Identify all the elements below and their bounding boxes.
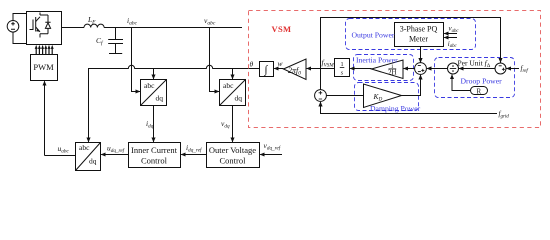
svg-text:Control: Control — [220, 156, 247, 166]
label 1/s fraction — [340, 61, 345, 76]
sign minus top of S1 — [418, 65, 421, 67]
svg-text:1: 1 — [340, 61, 343, 68]
svg-text:abc: abc — [223, 81, 234, 90]
wire u_abc from dq/abc to corner — [45, 155, 76, 157]
transistor Q1 (IGBT with freewheel diode) — [30, 13, 51, 38]
wire theta drop into abc/dq box2 — [232, 69, 234, 80]
inverter box — [27, 12, 62, 45]
divider junction (per unit) — [448, 63, 459, 74]
svg-text:Control: Control — [141, 156, 168, 166]
wire fvsm into S3 top — [320, 69, 322, 90]
svg-text:R: R — [476, 87, 481, 95]
damping gain KD triangle — [364, 84, 402, 108]
inductor LF — [84, 24, 104, 27]
summing junction S2 (f_ref - f_vsm) — [495, 63, 506, 74]
capacitor Cf — [108, 28, 123, 54]
svg-text:Meter: Meter — [409, 35, 428, 44]
svg-text:vabc: vabc — [204, 16, 216, 27]
svg-text:vabc: vabc — [449, 25, 460, 34]
wire S3 to damping gain — [326, 95, 363, 97]
wire dc source bottom to inverter — [13, 32, 27, 43]
1/s integrator block — [335, 59, 350, 77]
abc/dq transform box2 (voltage) — [220, 80, 246, 106]
damping power boundary (blue dashed) — [355, 83, 419, 111]
svg-text:idq_ref: idq_ref — [186, 143, 203, 153]
svg-text:2πf0: 2πf0 — [288, 66, 301, 77]
svg-text:fVSM: fVSM — [322, 58, 335, 69]
wire frequency error into divider — [459, 68, 495, 70]
svg-text:Droop Power: Droop Power — [461, 77, 503, 86]
summing junction S1 (power error) — [415, 63, 427, 75]
svg-text:VSM: VSM — [272, 24, 292, 34]
wire dc source top to inverter — [13, 14, 27, 21]
svg-text:Damping Power: Damping Power — [370, 104, 421, 113]
wire v_abc tap down with hop over theta rail — [210, 28, 220, 92]
wire R to divider — [452, 75, 470, 91]
svg-text:Cf: Cf — [96, 36, 104, 47]
svg-text:w: w — [278, 59, 283, 68]
integrator block — [260, 62, 274, 77]
per-unit / droop boundary (blue dashed) — [435, 58, 515, 98]
sign minus bottom of S1 — [418, 71, 421, 73]
sign minus bottom of S3 — [319, 98, 322, 100]
outer voltage control box — [207, 143, 260, 168]
svg-text:vdq_ref: vdq_ref — [264, 141, 282, 151]
svg-text:∫: ∫ — [263, 64, 268, 76]
wire damping output up into S1 — [402, 75, 421, 96]
svg-text:vdq: vdq — [221, 119, 230, 129]
wire f_grid into S3 bottom — [321, 102, 498, 114]
3-phase PQ meter box — [395, 23, 444, 47]
svg-text:θ: θ — [250, 60, 254, 69]
wire fvsm top route to S2 — [321, 18, 501, 69]
wire fvsm into 2pif0 gain — [307, 68, 321, 70]
gate drive bus (PWM to inverter) — [35, 45, 54, 55]
VSM boundary (red dashed) — [249, 11, 541, 128]
svg-text:PWM: PWM — [33, 62, 54, 72]
wire u_dq_ref ICC to dq/abc — [101, 154, 128, 156]
wire u_abc up into PWM — [44, 81, 46, 155]
svg-text:KD: KD — [373, 92, 383, 102]
wire main line continues — [104, 27, 242, 29]
sign plus right of S1 — [421, 69, 424, 72]
wire fvsm from 1/s output — [321, 68, 335, 70]
divide symbol — [450, 68, 456, 70]
svg-text:3-Phase PQ: 3-Phase PQ — [400, 25, 438, 34]
wire f_ref into S2 — [507, 68, 520, 70]
wire v_dq_ref into OVC — [260, 154, 282, 156]
svg-text:iabc: iabc — [127, 16, 138, 27]
wire from inertia gain into 1/s — [350, 68, 371, 70]
inner current control box — [129, 143, 181, 168]
wire i_abc stub into PQ meter — [444, 37, 457, 39]
svg-text:uabc: uabc — [58, 144, 70, 154]
svg-text:fgrid: fgrid — [499, 110, 510, 120]
wire i_dq_ref OVC to ICC — [181, 154, 206, 156]
wire i_abc tap down with hop over theta rail — [132, 28, 141, 92]
sign minus top of S2 — [499, 65, 502, 67]
wire v_dq down to outer voltage control — [232, 106, 234, 143]
svg-text:abc: abc — [144, 81, 155, 90]
svg-text:idq: idq — [146, 119, 154, 129]
theta rail from integrator to transforms — [89, 65, 260, 142]
wire theta drop into abc/dq box1 — [153, 69, 155, 80]
svg-text:dq: dq — [89, 157, 97, 166]
svg-text:abc: abc — [79, 143, 90, 152]
output power boundary (blue dashed) — [346, 19, 476, 50]
label 1/2H fraction — [388, 65, 397, 76]
svg-text:2H: 2H — [388, 68, 397, 76]
wire sum to inertia gain — [404, 68, 415, 70]
svg-text:Inertia Power: Inertia Power — [356, 56, 398, 65]
sign plus right of S2 — [502, 68, 505, 71]
svg-text:dq: dq — [235, 94, 243, 103]
gain 2*pi*f0 triangle — [284, 59, 307, 80]
abc/dq transform box1 (current) — [141, 80, 167, 106]
svg-text:udq_ref: udq_ref — [107, 144, 126, 154]
inertia gain 1/2H triangle — [372, 60, 404, 79]
dq/abc transform box (bottom) — [76, 143, 101, 171]
sign plus top of S3 — [319, 91, 323, 95]
svg-text:Output Power: Output Power — [352, 31, 395, 40]
wire PQ meter output into S1 — [420, 47, 422, 63]
wire w into integrator — [274, 68, 283, 70]
wire i_dq down to inner current control — [153, 106, 155, 143]
svg-text:dq: dq — [156, 94, 164, 103]
main ac line — [62, 27, 85, 29]
summing junction S3 (damping input) — [315, 90, 327, 102]
svg-text:Outer Voltage: Outer Voltage — [209, 145, 256, 155]
svg-text:iabc: iabc — [448, 40, 458, 49]
wire droop output into S1 — [427, 68, 448, 70]
diode D1 — [45, 23, 50, 29]
inertia power boundary (blue dashed) — [354, 55, 414, 81]
svg-text:Inner Current: Inner Current — [131, 145, 178, 155]
svg-text:fref: fref — [521, 65, 529, 75]
svg-text:s: s — [341, 69, 344, 76]
droop gain R (stadium) — [471, 87, 488, 95]
svg-text:Per Unit fΔ: Per Unit fΔ — [458, 59, 491, 70]
wire v_abc stub into PQ meter — [444, 33, 457, 35]
svg-text:LF: LF — [87, 15, 96, 26]
dc source V1 — [7, 21, 19, 33]
PWM box — [31, 55, 58, 81]
